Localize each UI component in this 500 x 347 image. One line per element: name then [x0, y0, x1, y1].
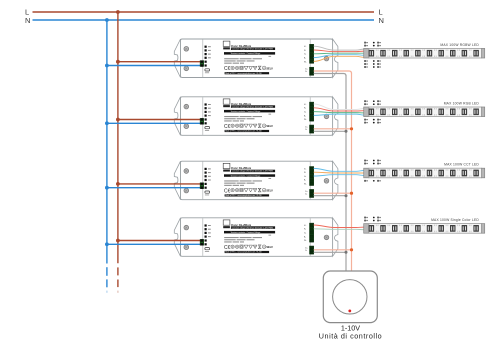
driver 4 screw hole left top	[184, 225, 189, 230]
driver 1 input pin labels	[208, 46, 211, 47]
svg-text:Tensione costante - Constant: Tensione costante - Constant Voltage	[231, 174, 261, 177]
junction N feeder / driver 3	[105, 186, 109, 190]
driver 4 brand logo box	[223, 220, 230, 225]
svg-text:SELV: SELV	[266, 125, 273, 128]
control unit knob	[333, 280, 367, 314]
driver 2 title bar	[231, 105, 275, 108]
LED strip 2: MAX 100W RGB LED	[364, 100, 485, 123]
driver 2 screw hole right	[324, 114, 329, 119]
LED strip 1 solder pads	[375, 49, 378, 51]
driver 3 screw hole left bottom	[184, 188, 189, 193]
junction L feeder / driver 2	[116, 118, 120, 122]
svg-text:Made in P.R.C. - www.example: Made in P.R.C. - www.example-driver.com …	[225, 195, 261, 197]
wire driver1 output white/grey (RGBW)	[314, 46, 365, 50]
driver 4 screw hole left bottom	[184, 245, 189, 250]
driver 3 output terminal block	[310, 167, 314, 186]
driver 1 dim terminal block	[310, 67, 314, 75]
driver 1 brand logo box	[223, 41, 230, 46]
svg-text:N: N	[379, 16, 384, 25]
wire driver4 output red V+ (single colour)	[314, 225, 365, 228]
driver 2 screw hole left bottom	[184, 124, 189, 129]
driver 2 push-dim label box	[205, 127, 210, 129]
driver 2 input pin labels	[208, 104, 211, 105]
driver 3 input pin row	[205, 168, 207, 170]
junction DIM+ bus / driver 4	[350, 248, 353, 251]
wire N branch to driver 1	[107, 65, 203, 67]
LED strip 2 chips	[369, 109, 374, 115]
junction L feeder / driver 3	[116, 182, 120, 186]
driver 2 ratings text (Uin/Uout/temperature data)	[269, 113, 272, 116]
svg-text:W-: W-	[304, 240, 307, 242]
svg-text:C€: C€	[224, 245, 231, 251]
wire L branch to driver 1	[118, 61, 203, 63]
wire driver2 output red (RGB)	[314, 108, 365, 111]
LED strip 3 lower pad labels (V+)	[364, 180, 366, 182]
wire N branch to driver 3	[107, 187, 203, 189]
driver 3 push-dim label box	[205, 191, 210, 193]
wire L rail	[33, 11, 375, 13]
LED strip 1: MAX 100W RGBW LED	[364, 42, 485, 68]
driver 1 bottom info bar	[225, 72, 270, 74]
driver 4 subtitle bar	[224, 231, 275, 234]
LED strip 1 chips	[369, 50, 374, 56]
svg-text:Constant voltage LED driver di: Constant voltage LED driver dimmable 1-1…	[232, 105, 273, 108]
driver 4 output terminal block	[310, 223, 314, 242]
svg-text:N: N	[25, 16, 30, 25]
svg-text:Unità di controllo: Unità di controllo	[319, 332, 382, 341]
LED strip 2 solder pads	[375, 108, 378, 110]
driver 1 input pin row	[205, 46, 207, 48]
driver 1 push-dim label box	[205, 69, 210, 71]
svg-text:SELV: SELV	[266, 246, 273, 249]
wire driver3 output blue CW (CCT)	[314, 175, 365, 176]
driver 2 right mounting flange	[333, 97, 338, 136]
driver 1 input terminal block	[200, 61, 204, 67]
wire DIM+ bus vertical (salmon)	[351, 73, 353, 272]
svg-text:MAX 100W RGB LED: MAX 100W RGB LED	[444, 102, 480, 106]
svg-text:W-: W-	[304, 184, 307, 186]
junction DIM+ bus / driver 2	[350, 127, 353, 130]
svg-text:C€: C€	[224, 124, 231, 130]
wire driver2 output white (RGB)	[314, 104, 365, 110]
LED strip 1 connector	[364, 48, 369, 58]
driver 3 subtitle bar	[224, 174, 275, 177]
driver 3 dim terminal block	[310, 189, 314, 197]
wire driver2 output green (RGB)	[314, 112, 365, 113]
wire driver2 DIM+ stub	[314, 128, 352, 130]
wire L feeder dashed continuation	[117, 267, 119, 275]
driver 3 input terminal block	[200, 183, 204, 189]
svg-text:MAX 100W RGBW LED: MAX 100W RGBW LED	[440, 43, 479, 47]
wire driver3 output orange V+ (CCT)	[314, 171, 365, 174]
wire N branch to driver 2	[107, 122, 203, 124]
LED driver unit 4	[174, 218, 338, 256]
driver 4 input pin labels	[208, 225, 211, 226]
junction DIM- bus / driver 4	[345, 251, 348, 254]
LED strip 4 input pad labels (V+/V-)	[364, 217, 366, 219]
wire L branch to driver 4	[118, 240, 203, 242]
driver 4 title bar	[231, 226, 275, 229]
svg-text:Made in P.R.C. - www.example: Made in P.R.C. - www.example-driver.com …	[225, 73, 261, 75]
LED strip 4 end cap	[482, 224, 485, 234]
driver 1 left mounting flange	[174, 39, 180, 78]
junction N rail/feeder	[105, 18, 109, 22]
LED strip 3: MAX 100W CCT LED	[364, 160, 485, 182]
driver 1 output terminal block	[310, 44, 314, 63]
driver 3 title bar	[231, 170, 275, 173]
LED strip 4 solder pads	[375, 225, 378, 227]
svg-text:C€: C€	[224, 66, 231, 72]
driver 2 left mounting flange	[174, 97, 180, 136]
junction DIM- bus / driver 3	[345, 194, 348, 197]
junction N feeder / driver 1	[105, 64, 109, 68]
svg-text:W-: W-	[304, 61, 307, 63]
LED strip 1 end cap	[482, 48, 485, 58]
LED driver unit 1	[174, 39, 338, 78]
driver 3 right cap divider	[309, 162, 311, 200]
driver 1 screw hole left bottom	[184, 66, 189, 71]
driver 3 left mounting flange	[174, 161, 180, 200]
driver 4 input pin row	[205, 224, 207, 226]
junction N feeder / driver 2	[105, 121, 109, 125]
LED strip 1 band	[369, 48, 482, 58]
driver 1 screw hole right	[324, 56, 329, 61]
wire driver1 DIM+ stub to bus	[314, 71, 352, 73]
wire driver1 DIM- stub to bus	[314, 74, 346, 76]
wire driver1 output orange (RGBW)	[314, 56, 365, 61]
LED strip 4 band	[369, 224, 482, 234]
LED strip 3 connector	[364, 168, 369, 178]
driver 4 body	[181, 218, 333, 256]
driver 2 brand logo box	[223, 99, 230, 104]
LED strip 3 end cap	[482, 168, 485, 178]
LED strip 2 lower pad labels (G-/R-)	[364, 119, 366, 121]
driver 2 input terminal block	[200, 118, 204, 124]
wire driver3 DIM- stub	[314, 195, 346, 197]
LED strip 3 input pad labels (WW/CW)	[364, 160, 366, 162]
wire N feeder dashed continuation	[106, 267, 108, 276]
driver 1 right cap divider	[309, 39, 311, 77]
junction L feeder / driver 4	[116, 239, 120, 243]
LED strip 2 input pad labels (V+/B-)	[364, 100, 366, 102]
wire N vertical feeder	[106, 20, 108, 264]
svg-text:G-: G-	[304, 54, 306, 56]
wire N branch to driver 4	[107, 243, 203, 245]
LED strip 1 input pad labels (V+/B-)	[364, 42, 366, 44]
driver 3 screw hole left top	[184, 169, 189, 174]
driver 4 right cap divider	[309, 218, 311, 256]
junction DIM- bus / driver 2	[345, 130, 348, 133]
wire driver4 DIM- stub	[314, 251, 346, 253]
driver 3 ratings text (Uin/Uout/temperature data)	[269, 177, 272, 180]
driver 3 right mounting flange	[333, 161, 338, 200]
driver 3 body	[181, 161, 333, 200]
svg-text:Tensione costante - Constant: Tensione costante - Constant Voltage	[231, 110, 261, 113]
LED strip 3 band	[369, 168, 482, 178]
svg-text:SELV: SELV	[266, 67, 273, 70]
LED strip 4: MAX 100W Single Color LED	[364, 217, 485, 234]
driver 2 subtitle bar	[224, 110, 275, 113]
driver 4 ratings text (Uin/Uout/temperature data)	[269, 234, 272, 237]
driver 1 body	[181, 39, 333, 78]
wire L branch to driver 3	[118, 183, 203, 185]
driver 2 left cap divider	[202, 97, 204, 135]
driver 2 input pin row	[205, 103, 207, 105]
driver 1 screw hole left top	[184, 47, 189, 52]
svg-text:G-: G-	[304, 176, 306, 178]
driver 3 input pin labels	[208, 168, 211, 169]
svg-text:Tensione costante - Constant: Tensione costante - Constant Voltage	[231, 52, 261, 55]
svg-text:Made in P.R.C. - www.example: Made in P.R.C. - www.example-driver.com …	[225, 252, 261, 254]
junction L feeder / driver 1	[116, 60, 120, 64]
LED strip 4 chips	[369, 225, 374, 231]
LED driver unit 2	[174, 97, 338, 136]
svg-text:Constant voltage LED driver di: Constant voltage LED driver dimmable 1-1…	[232, 226, 273, 229]
wire driver3 output blue WW (CCT)	[314, 168, 365, 171]
driver 4 left cap divider	[202, 218, 204, 256]
svg-text:G-: G-	[304, 112, 306, 114]
driver 2 body	[181, 97, 333, 136]
LED strip 2 end cap	[482, 107, 485, 117]
driver 3 screw hole right	[324, 179, 329, 184]
wire driver2 output blue (RGB)	[314, 114, 365, 115]
junction DIM+ bus / driver 3	[350, 192, 353, 195]
driver 1 left cap divider	[202, 39, 204, 77]
driver 4 right mounting flange	[333, 218, 338, 256]
wire driver2 DIM- stub	[314, 130, 346, 132]
driver 4 dim terminal block	[310, 246, 314, 254]
LED strip 3 solder pads	[375, 169, 378, 171]
svg-text:G-: G-	[304, 233, 306, 235]
wire driver4 output pale green V- (single colour)	[314, 228, 365, 231]
svg-text:Constant voltage LED driver di: Constant voltage LED driver dimmable 1-1…	[232, 48, 273, 51]
driver 2 output terminal block	[310, 102, 314, 121]
driver 1 title bar	[231, 48, 275, 51]
svg-text:Made in P.R.C. - www.example: Made in P.R.C. - www.example-driver.com …	[225, 131, 261, 133]
LED strip 1 lower pad labels (G-/R-/W-)	[364, 60, 366, 62]
LED driver unit 3	[174, 161, 338, 200]
driver 2 screw hole left top	[184, 104, 189, 109]
LED strip 4 connector	[364, 224, 369, 234]
LED strip 3 chips	[369, 170, 374, 176]
wire L branch to driver 2	[118, 119, 203, 121]
wire DIM- bus vertical (grey)	[345, 75, 347, 271]
svg-text:Tensione costante - Constant: Tensione costante - Constant Voltage	[231, 231, 261, 234]
junction N feeder / driver 4	[105, 242, 109, 246]
wire driver1 output red (RGBW)	[314, 50, 365, 52]
svg-text:SELV: SELV	[266, 190, 273, 193]
LED strip 2 band	[369, 107, 482, 117]
driver 4 screw hole right	[324, 235, 329, 240]
driver 4 bottom info bar	[225, 251, 270, 253]
wire N rail	[33, 19, 375, 21]
svg-text:Constant voltage LED driver di: Constant voltage LED driver dimmable 1-1…	[232, 170, 273, 173]
driver 1 subtitle bar	[224, 52, 275, 55]
wire driver3 DIM+ stub	[314, 192, 352, 194]
LED strip 2 connector	[364, 107, 369, 117]
driver 2 right cap divider	[309, 97, 311, 135]
driver 1 ratings text (Uin/Uout/temperature data)	[269, 55, 272, 58]
driver 1 right mounting flange	[333, 39, 338, 78]
driver 3 brand logo box	[223, 163, 230, 168]
svg-text:MAX 100W Single Color LED: MAX 100W Single Color LED	[431, 218, 479, 222]
wire driver1 output blue (RGBW)	[314, 55, 365, 58]
wire L vertical feeder	[117, 12, 119, 263]
driver 2 dim terminal block	[310, 125, 314, 133]
svg-text:W-: W-	[304, 119, 307, 121]
svg-text:C€: C€	[224, 188, 231, 194]
junction L rail/feeder	[116, 10, 120, 14]
wire driver1 output green (RGBW)	[314, 52, 365, 55]
driver 3 bottom info bar	[225, 194, 270, 196]
driver 3 left cap divider	[202, 162, 204, 200]
control unit knob indicator dot	[348, 310, 351, 313]
1-10V control unit box	[323, 271, 377, 323]
driver 2 bottom info bar	[225, 130, 270, 132]
driver 4 push-dim label box	[205, 248, 210, 250]
svg-text:MAX 100W CCT LED: MAX 100W CCT LED	[444, 163, 479, 167]
driver 4 input terminal block	[200, 239, 204, 245]
wire driver4 DIM+ stub	[314, 249, 352, 251]
driver 4 left mounting flange	[174, 218, 180, 256]
